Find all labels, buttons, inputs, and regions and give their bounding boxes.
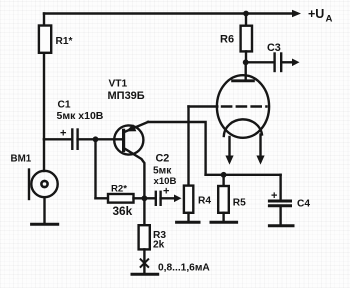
svg-text:R5: R5 — [233, 198, 246, 209]
svg-text:36k: 36k — [113, 204, 133, 218]
node collector/R2/C2/R3 junction — [142, 195, 148, 201]
wire grid lead to R4 — [189, 105, 218, 107]
node X current break mark 0,8...1,6mA — [141, 259, 149, 267]
svg-text:МП39Б: МП39Б — [108, 90, 145, 102]
resistor R3 — [143, 198, 145, 225]
svg-text:C4: C4 — [297, 199, 310, 210]
capacitor C2 — [144, 197, 155, 199]
svg-text:C3: C3 — [267, 42, 281, 54]
svg-text:+: + — [163, 186, 169, 198]
resistor R1 — [39, 26, 51, 53]
node R6 bottom / C3 / anode junction — [243, 59, 249, 65]
wire base node to C1 — [44, 138, 71, 140]
resistor R6 — [245, 14, 247, 26]
svg-text:5мк: 5мк — [153, 166, 172, 177]
svg-text:C2: C2 — [156, 153, 170, 165]
ground (below R4) — [177, 221, 199, 224]
resistor R5 — [222, 175, 224, 186]
ground (below R3) — [132, 273, 158, 276]
svg-text:+: + — [271, 190, 277, 202]
ground (below R5) — [211, 221, 237, 224]
node R5 top junction — [221, 172, 227, 178]
wire top rail +UA — [44, 12, 292, 14]
vacuum tube grid (dashed) — [222, 105, 267, 107]
vacuum tube anode — [244, 62, 246, 81]
svg-text:+: + — [60, 128, 66, 140]
wire cathode line horizontal — [206, 174, 281, 176]
svg-text:VT1: VT1 — [109, 79, 128, 90]
vacuum tube envelope — [217, 75, 269, 138]
svg-text:5мк x10В: 5мк x10В — [57, 110, 104, 122]
vacuum tube filament arc — [224, 119, 262, 136]
capacitor C1 — [71, 130, 73, 149]
ground (below C4) — [269, 224, 293, 227]
svg-text:R6: R6 — [220, 34, 234, 46]
node top rail junction dot — [243, 11, 249, 17]
microphone BM1 — [43, 139, 45, 171]
wire R2 tap vertical — [94, 139, 96, 198]
wire anode junction to C3 — [246, 61, 274, 63]
resistor R2 — [96, 197, 109, 199]
vacuum tube filament leg right (arrow down) — [259, 135, 261, 157]
wire left vertical from rail to base node — [43, 14, 45, 140]
svg-text:R4: R4 — [198, 196, 211, 207]
svg-text:ВМ1: ВМ1 — [11, 154, 32, 165]
svg-text:0,8...1,6мА: 0,8...1,6мА — [158, 262, 210, 273]
svg-text:+U: +U — [308, 7, 324, 21]
wire C1 to transistor base — [78, 138, 124, 140]
transistor VT1 — [114, 125, 143, 154]
node base / R2 tap junction — [93, 136, 99, 142]
ground (below BM1) — [32, 223, 58, 226]
resistor R4 — [187, 107, 189, 186]
svg-text:R2*: R2* — [111, 183, 127, 194]
svg-text:2k: 2k — [153, 240, 165, 251]
wire emitter to cathode line — [148, 122, 206, 175]
svg-text:R1*: R1* — [56, 36, 73, 47]
vacuum tube filament leg left (arrow down) — [228, 137, 230, 157]
arrow +UA supply — [292, 10, 301, 18]
capacitor C4 — [279, 175, 281, 201]
capacitor C3 — [273, 54, 275, 72]
svg-text:A: A — [326, 14, 333, 25]
